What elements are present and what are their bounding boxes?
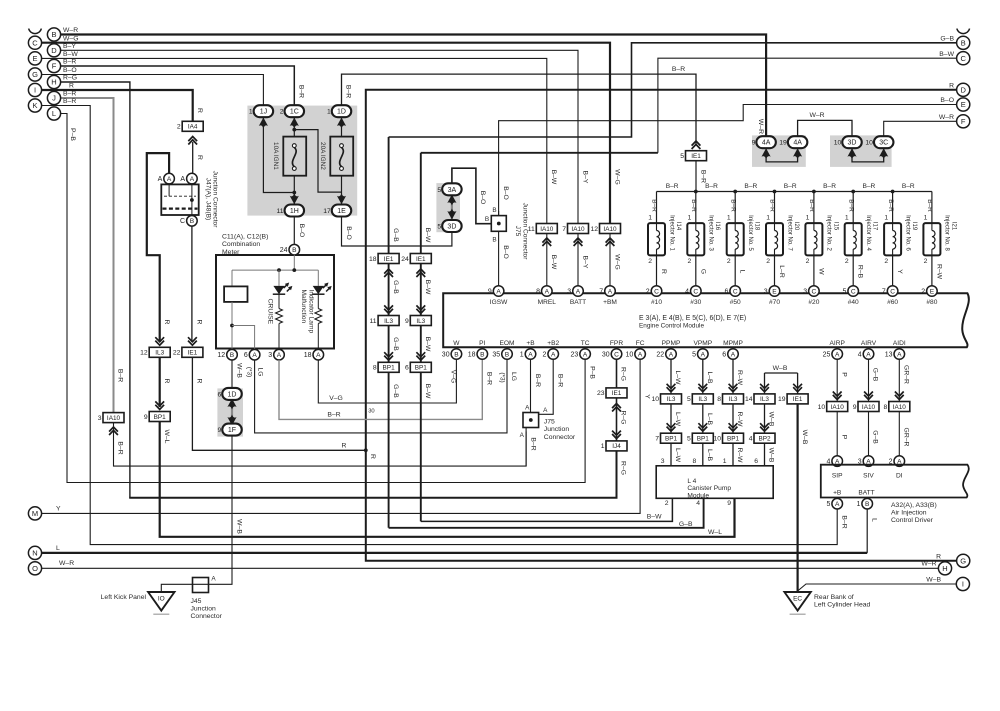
svg-text:L: L xyxy=(52,109,56,118)
svg-text:I20: I20 xyxy=(793,222,799,231)
svg-text:DI: DI xyxy=(896,473,903,480)
svg-text:C: C xyxy=(693,288,698,295)
svg-text:B–W: B–W xyxy=(647,514,662,521)
svg-text:J: J xyxy=(52,94,56,103)
svg-text:IE1: IE1 xyxy=(793,396,803,403)
svg-text:L: L xyxy=(56,545,60,552)
connector IL3 pin 12 xyxy=(155,337,164,345)
wire R from circle D (right) to R trunk xyxy=(366,90,957,451)
svg-text:R–G: R–G xyxy=(620,367,627,381)
connector circle F (left) xyxy=(47,59,60,72)
svg-text:B–R: B–R xyxy=(926,199,933,212)
svg-text:A: A xyxy=(525,404,530,411)
wire W-B from meter 12(B) down to junction connector J45 xyxy=(209,360,233,584)
svg-text:Injector No. 2: Injector No. 2 xyxy=(826,215,832,251)
svg-text:G–B: G–B xyxy=(392,228,399,242)
air injection driver terminal BATT 1(B) xyxy=(862,498,873,509)
ECM terminal #30 4(C) xyxy=(691,286,702,297)
svg-text:A: A xyxy=(316,352,321,359)
svg-text:1F: 1F xyxy=(228,427,236,434)
svg-text:6: 6 xyxy=(754,458,758,465)
connector circle K (left) xyxy=(28,99,41,112)
junction dot on B-R bus at injector column 3 xyxy=(733,190,737,194)
svg-text:TC: TC xyxy=(581,340,590,347)
ECM terminal +BM 7(A) xyxy=(605,286,616,297)
svg-text:10: 10 xyxy=(626,351,634,358)
wire G-B trunk from circle B (right) through IE1-18 and BP1-8 to canister pin 4 xyxy=(388,137,390,253)
connector IA10 pin 11 xyxy=(542,238,551,246)
connector IJ4 pin 1 xyxy=(612,431,621,439)
ECM terminal #10 2(C) xyxy=(651,286,662,297)
svg-text:B–O: B–O xyxy=(298,224,305,238)
connector IL3 pin 5 xyxy=(698,384,707,392)
svg-text:G–B: G–B xyxy=(679,521,693,528)
svg-text:B–W: B–W xyxy=(550,170,557,185)
connector BP1 pin 7 xyxy=(667,423,676,431)
svg-text:1: 1 xyxy=(727,215,731,222)
svg-text:A: A xyxy=(583,351,588,358)
svg-text:4: 4 xyxy=(685,288,689,295)
svg-text:L: L xyxy=(870,518,877,522)
svg-text:B–O: B–O xyxy=(345,226,352,240)
svg-text:Combination: Combination xyxy=(222,241,260,248)
svg-text:10: 10 xyxy=(865,140,873,147)
svg-text:10: 10 xyxy=(834,140,842,147)
svg-text:B–W: B–W xyxy=(424,384,431,399)
svg-text:G–B: G–B xyxy=(872,368,879,382)
svg-text:A: A xyxy=(608,288,613,295)
svg-text:W–B: W–B xyxy=(768,448,775,463)
meter terminal 6(A) xyxy=(249,349,260,360)
svg-text:#70: #70 xyxy=(769,299,780,306)
svg-text:5: 5 xyxy=(687,436,691,443)
svg-text:I: I xyxy=(34,86,36,95)
svg-text:E 3(A), E 4(B), E 5(C), 6(D),: E 3(A), E 4(B), E 5(C), 6(D), E 7(E) xyxy=(639,315,746,322)
meter terminal 3(A) xyxy=(274,349,285,360)
connector IE1 pin 24 xyxy=(410,254,431,264)
svg-text:+BM: +BM xyxy=(603,299,617,306)
svg-text:E: E xyxy=(930,288,935,295)
svg-text:R–B: R–B xyxy=(857,265,864,279)
svg-text:Junction: Junction xyxy=(544,426,570,433)
svg-text:R–G: R–G xyxy=(620,411,627,425)
svg-text:J47(A), J48(B): J47(A), J48(B) xyxy=(204,178,211,221)
svg-text:2: 2 xyxy=(924,258,928,265)
svg-text:Control Driver: Control Driver xyxy=(891,517,934,524)
svg-text:R–W: R–W xyxy=(736,447,743,463)
svg-text:23: 23 xyxy=(597,390,605,397)
svg-text:A: A xyxy=(835,351,840,358)
svg-text:3: 3 xyxy=(661,458,665,465)
svg-text:W: W xyxy=(453,340,460,347)
svg-text:19: 19 xyxy=(779,140,787,147)
wire R-G from ECM FPR to connector IE1 pin 23 xyxy=(616,359,618,387)
svg-text:B–W: B–W xyxy=(424,337,431,352)
connector terminal 3D pin 10 xyxy=(842,136,862,148)
svg-text:B–R: B–R xyxy=(666,183,679,190)
svg-text:C11(A), C12(B): C11(A), C12(B) xyxy=(222,234,268,241)
svg-text:9: 9 xyxy=(727,500,731,507)
ECM terminal #60 7(C) xyxy=(887,286,898,297)
svg-text:B–R: B–R xyxy=(534,374,541,387)
svg-text:5: 5 xyxy=(842,288,846,295)
svg-text:Rear Bank of: Rear Bank of xyxy=(814,594,854,601)
junction dot on B-R bus at injector column 7 xyxy=(891,190,895,194)
connector terminal 1F pin 9 xyxy=(222,424,242,436)
wire W-B bridge from IL3-14 column to IE1 pin 19 xyxy=(765,372,798,374)
svg-text:A: A xyxy=(496,288,501,295)
svg-text:#30: #30 xyxy=(690,299,701,306)
svg-text:2: 2 xyxy=(542,351,546,358)
ground IO left kick panel xyxy=(148,592,174,611)
wire B-W through connector IA10 pin 11 xyxy=(546,234,548,286)
wire R-G from circle H down left side to FPR junction IJ4 xyxy=(61,82,130,498)
connector IL3 pin 14 xyxy=(760,384,769,392)
svg-text:W–G: W–G xyxy=(613,169,620,184)
svg-text:10: 10 xyxy=(818,404,826,411)
svg-text:IL3: IL3 xyxy=(667,396,676,403)
svg-text:G: G xyxy=(699,269,706,274)
svg-text:B–R: B–R xyxy=(297,85,304,98)
connector circle C (right) xyxy=(957,52,970,65)
svg-text:Injector No. 8: Injector No. 8 xyxy=(944,215,950,251)
svg-text:B–R: B–R xyxy=(862,183,875,190)
svg-text:2: 2 xyxy=(688,258,692,265)
canister pump module output pin 4 wire G-B xyxy=(389,498,704,528)
svg-text:4: 4 xyxy=(696,500,700,507)
connector pair link 3A-3D xyxy=(451,194,453,221)
svg-text:6: 6 xyxy=(244,352,248,359)
svg-text:Junction: Junction xyxy=(191,606,217,613)
svg-text:1E: 1E xyxy=(337,208,346,215)
svg-text:E: E xyxy=(772,288,777,295)
wire V-G from meter 18(A) to ECM W terminal xyxy=(318,359,456,403)
svg-text:B–R: B–R xyxy=(63,91,76,98)
svg-text:I14: I14 xyxy=(675,222,681,231)
svg-text:P–B: P–B xyxy=(69,128,76,141)
svg-text:3C: 3C xyxy=(879,140,888,147)
svg-text:C: C xyxy=(180,218,185,225)
svg-text:R–G: R–G xyxy=(63,75,77,82)
air injection driver terminal +B 5(A) xyxy=(832,498,843,509)
wire B-Y from circle D to connector IA10 pin 7 xyxy=(61,50,579,223)
svg-text:B–R: B–R xyxy=(63,98,76,105)
svg-text:B–R: B–R xyxy=(744,183,757,190)
wire P-B from circle L to ECM TC terminal xyxy=(61,114,586,483)
connector terminal 1H pin 11 xyxy=(290,193,299,204)
wire R from IE1-22 to R trunk junction xyxy=(192,358,365,451)
wire W-L from J47 terminal A to connector IL3 pin 12 xyxy=(147,153,169,342)
air injection driver terminal SIP 4(A) xyxy=(832,456,843,467)
svg-text:A: A xyxy=(180,176,185,183)
svg-text:12: 12 xyxy=(590,226,598,233)
svg-text:2: 2 xyxy=(845,258,849,265)
svg-text:18: 18 xyxy=(304,352,312,359)
wire W-G through connector IA10 pin 12 xyxy=(609,234,611,286)
svg-text:2: 2 xyxy=(766,258,770,265)
svg-text:BATT: BATT xyxy=(858,490,874,497)
svg-text:7: 7 xyxy=(562,226,566,233)
svg-text:+B: +B xyxy=(526,340,535,347)
svg-text:EOM: EOM xyxy=(499,340,514,347)
svg-text:IA10: IA10 xyxy=(540,226,554,233)
svg-text:Connector: Connector xyxy=(191,613,223,620)
connector IL3 pin 8 xyxy=(729,384,738,392)
svg-text:Injector No. 6: Injector No. 6 xyxy=(904,215,910,251)
wire B-O from circle E (right) to junction connector J75 xyxy=(499,105,957,216)
svg-text:25: 25 xyxy=(823,351,831,358)
svg-text:Injector No. 7: Injector No. 7 xyxy=(786,215,792,251)
junction connector J47 terminal C(B) xyxy=(187,216,198,227)
svg-text:B–R: B–R xyxy=(902,183,915,190)
connector terminal 1J pin 1 xyxy=(259,118,268,129)
svg-text:3: 3 xyxy=(98,415,102,422)
svg-text:P: P xyxy=(840,372,847,377)
connector terminal 4A pin 19 xyxy=(788,136,808,148)
svg-text:B: B xyxy=(190,218,195,225)
svg-text:C: C xyxy=(960,54,966,63)
svg-text:B–W: B–W xyxy=(550,255,557,270)
svg-text:R: R xyxy=(949,83,954,90)
wire W-L from BP1-9 to canister pump module pin 9 xyxy=(160,422,735,537)
meter terminal 18(A) xyxy=(313,349,324,360)
svg-text:B: B xyxy=(492,237,496,244)
svg-text:C: C xyxy=(32,38,38,47)
connector IE1 pin 23 xyxy=(606,388,627,398)
svg-text:R: R xyxy=(196,379,203,384)
svg-text:BP1: BP1 xyxy=(697,436,710,443)
junction connector J47 terminal A (left) xyxy=(164,173,175,184)
connector terminal 1C pin 2 xyxy=(290,118,299,129)
svg-text:3A: 3A xyxy=(448,187,457,194)
svg-text:L–B: L–B xyxy=(706,449,713,462)
wire B-R from J75 (lower) down to IA10-3 line xyxy=(525,428,527,467)
connector BP1 pin 6 xyxy=(416,352,425,360)
CRUISE indicator resistor xyxy=(278,294,280,309)
wire B-R from circle F to fuse connector 1C xyxy=(61,66,295,105)
svg-text:3D: 3D xyxy=(447,224,456,231)
connector circle C (left) xyxy=(28,36,41,49)
wire R from R trunk to circle G (right) xyxy=(366,450,957,561)
svg-text:B–R: B–R xyxy=(769,199,776,212)
svg-text:W–L: W–L xyxy=(708,529,722,536)
connector IL3 pin 9 xyxy=(416,305,425,313)
svg-text:G: G xyxy=(960,556,966,565)
air injection control driver box xyxy=(821,465,969,498)
wire W-R bridge from 4A pin 19 to 3D pin 10 xyxy=(798,120,852,135)
svg-text:1: 1 xyxy=(806,215,810,222)
svg-text:2: 2 xyxy=(806,258,810,265)
svg-text:1: 1 xyxy=(845,215,849,222)
svg-text:C: C xyxy=(614,351,619,358)
connector circle G (left) xyxy=(28,68,41,81)
svg-text:12: 12 xyxy=(140,350,148,357)
svg-text:A: A xyxy=(866,351,871,358)
svg-text:W–R: W–R xyxy=(939,114,954,121)
svg-text:10: 10 xyxy=(651,396,659,403)
svg-text:G: G xyxy=(32,70,38,79)
svg-text:20A IGN2: 20A IGN2 xyxy=(319,142,326,170)
connector circle A (right, clipped) xyxy=(957,29,970,34)
svg-text:R: R xyxy=(342,442,347,449)
svg-text:7: 7 xyxy=(882,288,886,295)
svg-text:22: 22 xyxy=(173,350,181,357)
svg-text:R: R xyxy=(660,269,667,274)
svg-text:R–W: R–W xyxy=(736,370,743,386)
connector circle D (right) xyxy=(957,83,970,96)
svg-text:9: 9 xyxy=(405,318,409,325)
svg-text:11: 11 xyxy=(370,318,377,325)
connector BP2 pin 4 xyxy=(760,423,769,431)
svg-text:F: F xyxy=(961,117,966,126)
svg-text:4A: 4A xyxy=(793,140,802,147)
svg-text:I19: I19 xyxy=(911,222,917,231)
svg-text:A32(A), A33(B): A32(A), A33(B) xyxy=(891,502,937,509)
svg-text:1J: 1J xyxy=(260,109,267,116)
svg-text:Y: Y xyxy=(643,394,650,399)
connector pair link 3D-3C xyxy=(852,149,884,162)
junction connector J45 box xyxy=(193,578,209,593)
ECM terminal #40 5(C) xyxy=(848,286,859,297)
svg-text:4: 4 xyxy=(858,351,862,358)
connector IL3 pin 11 xyxy=(384,305,393,313)
svg-text:PPMP: PPMP xyxy=(662,340,681,347)
svg-text:13: 13 xyxy=(885,351,893,358)
connector IA10 pin 9 xyxy=(864,392,873,400)
svg-text:MPMP: MPMP xyxy=(723,340,743,347)
svg-text:B–R: B–R xyxy=(840,515,847,528)
svg-text:B–W: B–W xyxy=(939,51,954,58)
fuse 10A IGN1 xyxy=(283,137,306,176)
svg-text:Injector No. 4: Injector No. 4 xyxy=(865,215,871,251)
svg-text:8: 8 xyxy=(693,458,697,465)
svg-text:I16: I16 xyxy=(714,222,720,231)
svg-text:R–W: R–W xyxy=(736,411,743,427)
svg-text:I17: I17 xyxy=(872,222,878,231)
wire B-W trunk from circle C (right) through IE1-24 and BP1-6 to canister pin 2 xyxy=(420,153,422,253)
svg-text:A: A xyxy=(551,351,556,358)
svg-text:L–W: L–W xyxy=(674,448,681,463)
ECM terminal #20 3(C) xyxy=(809,286,820,297)
injector B-R supply bus xyxy=(657,191,932,193)
wire B-O from 1E to connector 3D xyxy=(342,217,452,246)
svg-text:1: 1 xyxy=(520,351,524,358)
svg-text:17: 17 xyxy=(323,208,331,215)
svg-text:B–R: B–R xyxy=(651,199,658,212)
svg-text:B–O: B–O xyxy=(479,191,486,205)
svg-text:BP1: BP1 xyxy=(727,436,740,443)
svg-text:IJ4: IJ4 xyxy=(612,443,621,450)
svg-text:G–B: G–B xyxy=(940,36,954,43)
svg-text:R: R xyxy=(196,108,203,113)
svg-text:BP1: BP1 xyxy=(154,414,167,421)
ECM terminal #50 6(C) xyxy=(730,286,741,297)
svg-text:IA10: IA10 xyxy=(831,404,845,411)
injector I16 Injector No. 3 xyxy=(695,192,697,224)
svg-text:2: 2 xyxy=(646,288,650,295)
connector circle J (left) xyxy=(47,91,60,104)
svg-text:FC: FC xyxy=(636,340,645,347)
fuse block internal wire 1D through 20A fuse to 1E xyxy=(341,118,343,145)
svg-text:10: 10 xyxy=(713,436,721,443)
svg-text:R: R xyxy=(163,320,170,325)
svg-text:Y: Y xyxy=(56,505,61,512)
svg-text:B–R: B–R xyxy=(557,374,564,387)
svg-text:2: 2 xyxy=(177,124,181,131)
connector IA10 pin 12 xyxy=(606,238,615,246)
connector circle H (left) xyxy=(47,75,60,88)
svg-text:1: 1 xyxy=(327,109,331,116)
wire B-R from IA10-3 to junction connector J75 (lower) xyxy=(114,423,527,466)
junction connector J75 (upper) box xyxy=(491,216,506,232)
svg-text:B–R: B–R xyxy=(345,85,352,98)
svg-text:B: B xyxy=(865,501,870,508)
wire L from circle N to air injection driver BATT xyxy=(42,552,868,554)
svg-text:IL3: IL3 xyxy=(384,318,393,325)
svg-text:G–B: G–B xyxy=(392,384,399,398)
svg-text:B–R: B–R xyxy=(690,199,697,212)
connector pair link 4A-4A xyxy=(766,149,798,162)
svg-text:B–R: B–R xyxy=(117,369,124,382)
connector terminal 3C pin 10 xyxy=(874,136,894,148)
svg-text:A: A xyxy=(669,351,674,358)
svg-text:A: A xyxy=(897,351,902,358)
ECM terminal MREL 8(A) xyxy=(542,286,553,297)
wire W-R from circle O to circle H (right) xyxy=(42,567,939,569)
connector circle B (left) xyxy=(47,28,60,41)
wire W-B chain from ECM to canister pump module pin 6 xyxy=(764,373,766,394)
svg-text:5: 5 xyxy=(680,153,684,160)
svg-text:IE1: IE1 xyxy=(188,350,198,357)
svg-text:+B2: +B2 xyxy=(547,340,559,347)
svg-text:GR–R: GR–R xyxy=(903,365,910,384)
svg-text:9: 9 xyxy=(752,140,756,147)
wire B-O from 1H to combination meter terminal 24(B) xyxy=(293,217,295,244)
svg-text:Indicator Lamp: Indicator Lamp xyxy=(307,290,314,334)
svg-text:B–R: B–R xyxy=(327,411,340,418)
wire R from J47 terminal C to connector IE1 pin 22 xyxy=(191,226,193,342)
svg-text:A: A xyxy=(576,288,581,295)
wire L-W chain from ECM to canister pump module pin 3 xyxy=(670,359,672,393)
svg-text:B–R: B–R xyxy=(784,183,797,190)
svg-text:#20: #20 xyxy=(808,299,819,306)
svg-text:B–R: B–R xyxy=(529,437,536,450)
wire R from IA4 to junction connector J47 pin A xyxy=(192,142,194,173)
wire R-G from IE1-23 to connector IJ4 pin 1 xyxy=(616,398,618,440)
connector circle G (right) xyxy=(957,554,970,567)
svg-text:R: R xyxy=(163,379,170,384)
connector pair 1D/1F background panel xyxy=(217,388,243,436)
svg-text:P–B: P–B xyxy=(588,366,595,379)
svg-text:7: 7 xyxy=(655,436,659,443)
svg-text:B–O: B–O xyxy=(502,186,509,200)
wire B-O from connector 3A to junction connector J75 xyxy=(452,168,491,224)
ECM terminal IGSW 9(A) xyxy=(493,286,504,297)
svg-text:A: A xyxy=(520,432,525,439)
svg-text:23: 23 xyxy=(571,351,579,358)
svg-text:7: 7 xyxy=(599,288,603,295)
svg-text:B–Y: B–Y xyxy=(581,171,588,184)
svg-text:W–L: W–L xyxy=(163,430,170,444)
svg-text:BP2: BP2 xyxy=(758,436,771,443)
connector IE1 pin 18 xyxy=(378,254,399,264)
svg-text:G–B: G–B xyxy=(872,430,879,444)
svg-text:W: W xyxy=(817,268,824,275)
svg-text:A: A xyxy=(701,351,706,358)
svg-text:30: 30 xyxy=(442,351,450,358)
connector pair 3A/3D background panel xyxy=(436,183,460,232)
svg-text:6: 6 xyxy=(724,288,728,295)
